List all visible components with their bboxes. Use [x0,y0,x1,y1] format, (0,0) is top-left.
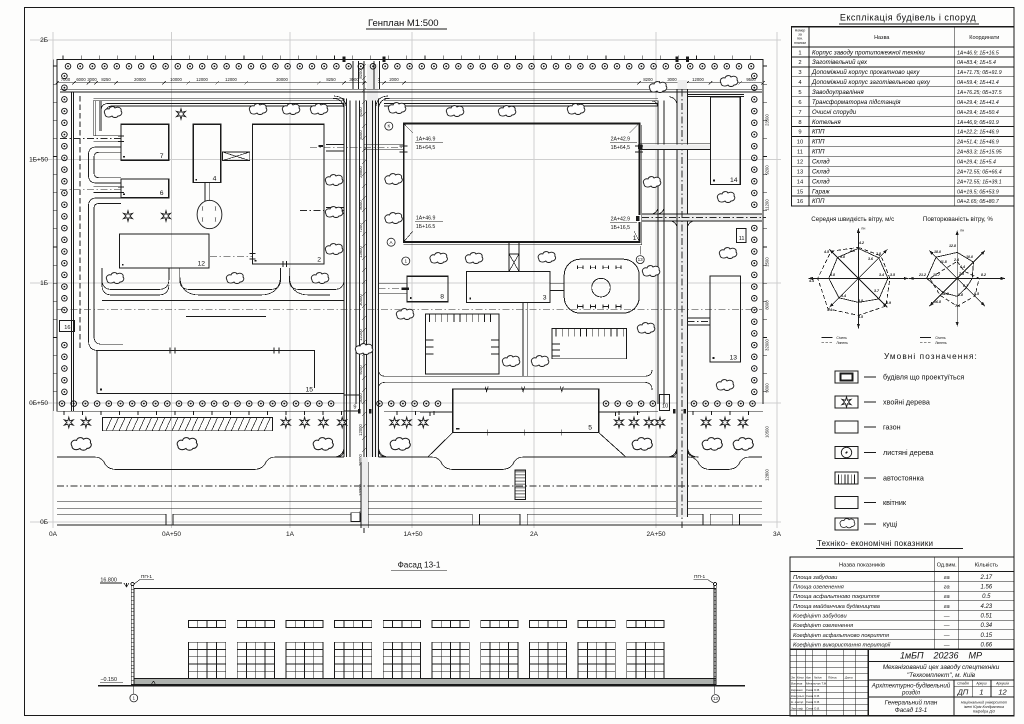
svg-text:20000: 20000 [134,77,146,82]
tep table [790,557,1014,649]
leader to axis marker 13 [639,246,641,255]
svg-text:га: га [944,585,950,591]
svg-text:12000: 12000 [225,77,237,82]
svg-text:Кільк: Кільк [797,675,804,679]
svg-text:3.8: 3.8 [830,273,835,277]
facade axis marker 1 [133,686,135,694]
street south curbs [57,501,762,514]
building 8 [407,276,448,302]
svg-text:9500: 9500 [746,77,756,82]
svg-text:25500: 25500 [358,166,363,178]
svg-text:Коефіцінт забудови: Коефіцінт забудови [793,614,848,620]
svg-text:2А+51.4; 1Б+46.9: 2А+51.4; 1Б+46.9 [956,140,999,146]
svg-text:КПП: КПП [812,150,825,156]
axis marker 13 [636,256,644,264]
svg-text:3: 3 [543,295,547,302]
svg-text:будівля що проектуїться: будівля що проектуїться [883,373,964,382]
svg-text:4.2: 4.2 [858,241,864,245]
svg-text:23500: 23500 [765,114,770,126]
building 2 [252,124,324,264]
svg-text:Аркуш: Аркуш [975,682,986,686]
svg-text:імені Юрія Кондратюка: імені Юрія Кондратюка [964,705,1004,709]
svg-text:30000: 30000 [358,294,363,306]
legend item листяні дерева [835,447,933,459]
svg-text:Назва показників: Назва показників [839,563,885,569]
svg-text:1А+46,9; 0Б+91.9: 1А+46,9; 0Б+91.9 [957,120,999,126]
road surface shading right vertical [678,80,688,517]
svg-text:1А: 1А [286,531,295,538]
svg-text:3000: 3000 [667,77,677,82]
axis marker A [387,238,395,246]
dimension line top [57,82,762,84]
svg-text:10000: 10000 [170,77,182,82]
svg-text:Допоміжний корпус прокатново ц: Допоміжний корпус прокатново цеху [811,69,920,76]
svg-text:пн: пн [960,228,964,232]
garage gate ticks [170,348,279,354]
road left band [72,92,74,411]
svg-text:2.4: 2.4 [953,258,959,262]
title block sheet name [953,697,955,716]
crosswalk [516,472,526,498]
axis marker 1 [402,257,410,265]
building 1 entrance ticks west [400,146,408,152]
road central boulevard [344,61,380,457]
svg-text:квітник: квітник [883,498,907,507]
svg-text:8000: 8000 [358,200,363,210]
svg-text:0.15: 0.15 [980,633,992,639]
svg-text:Дата: Дата [844,675,853,679]
wind rose frequency legend [920,336,947,345]
svg-text:3.9: 3.9 [886,301,891,305]
title block document number [868,661,1014,663]
svg-text:Коефіцінт асфальтново покриття: Коефіцінт асфальтново покриття [793,633,889,639]
svg-text:Кількість: Кількість [975,563,998,569]
svg-text:30000: 30000 [276,77,288,82]
svg-text:Корпус заводу протипожежної те: Корпус заводу протипожежної техніки [812,50,925,56]
svg-text:Склад: Склад [812,160,830,166]
svg-text:12: 12 [197,261,205,268]
svg-text:2А: 2А [530,531,539,538]
svg-text:3000: 3000 [87,77,97,82]
facade ground line [98,685,745,687]
svg-text:3000: 3000 [358,393,363,403]
facade windows [189,621,226,679]
explication table [792,27,1015,206]
svg-text:3: 3 [798,70,801,76]
svg-text:ДП: ДП [957,687,969,696]
svg-text:4.5: 4.5 [857,315,864,319]
street fillets into roads [333,446,699,457]
svg-text:12200: 12200 [358,329,363,341]
svg-text:Сема О.В.: Сема О.В. [806,694,820,698]
svg-text:Експлікація будівель і спор: Експлікація будівель і споруд [840,13,977,23]
title block object name [868,679,1014,681]
svg-text:12.8: 12.8 [949,244,956,248]
svg-text:−0.150: −0.150 [100,677,117,683]
bushes clouds middle [430,253,447,264]
svg-text:Національний університет: Національний університет [961,701,1007,705]
svg-text:Сема О.В.: Сема О.В. [806,688,820,692]
svg-text:пн: пн [861,226,865,230]
svg-text:Площа озеленення: Площа озеленення [793,585,844,591]
svg-text:2А+42.9: 2А+42.9 [611,217,631,223]
building 1 corner label top-left [404,124,413,134]
bushes clouds lawn row [71,438,91,451]
site boundary ticks [53,56,767,392]
svg-text:15: 15 [797,189,803,195]
road stub building 2 east [326,145,344,151]
svg-text:кущі: кущі [883,520,898,529]
svg-text:13: 13 [797,170,803,176]
svg-text:0Б+50: 0Б+50 [29,400,48,407]
svg-text:0А+29.4; 1Б+41.4: 0А+29.4; 1Б+41.4 [957,100,999,106]
svg-text:13: 13 [713,696,718,701]
svg-text:Заготівельний цех: Заготівельний цех [812,59,868,66]
svg-text:№док: №док [814,675,822,679]
svg-text:8: 8 [440,294,444,301]
svg-text:6000: 6000 [76,77,86,82]
svg-text:8200: 8200 [358,107,363,117]
svg-text:Коефіцінт озеленення: Коефіцінт озеленення [793,623,853,629]
svg-text:Фасад 13-1: Фасад 13-1 [398,561,441,570]
svg-text:13: 13 [729,355,737,362]
wind rose frequency [909,228,1005,326]
svg-text:Сема О.В.: Сема О.В. [806,700,820,704]
svg-text:8250: 8250 [326,77,336,82]
svg-text:КПП: КПП [812,199,825,205]
road right horizontal to boundary [642,214,762,221]
svg-text:га: га [944,594,950,600]
svg-text:0.5: 0.5 [982,594,991,600]
gallery building 1 to 3 with cross brace [509,242,519,271]
parking comb 2 [552,329,626,359]
svg-text:Склад: Склад [812,179,830,185]
svg-text:Генплан М1:500: Генплан М1:500 [368,18,439,29]
svg-text:4000: 4000 [358,130,363,140]
svg-text:0А+29.4; 1Б+5.4: 0А+29.4; 1Б+5.4 [957,160,996,166]
svg-text:—: — [943,623,950,629]
building 9 checkpoint [344,395,359,411]
road surface shading central [367,64,378,457]
coordinate grid [30,32,781,528]
road stub building 1 east [641,144,711,149]
svg-text:11.2: 11.2 [942,292,949,296]
svg-text:4.5: 4.5 [823,250,830,254]
svg-text:0Б: 0Б [40,519,48,526]
svg-text:0.34: 0.34 [980,623,992,629]
building 7 [121,124,169,160]
svg-text:12800: 12800 [765,469,770,481]
parking hatched west [103,418,273,431]
svg-text:3.8: 3.8 [840,255,845,259]
svg-text:1: 1 [798,50,801,56]
svg-text:15: 15 [305,387,313,394]
svg-text:Назва: Назва [874,35,890,41]
svg-text:1Б+64,5: 1Б+64,5 [416,145,436,151]
road right vertical [658,89,688,517]
road corner fillets [332,96,696,457]
building 6 transformer substation [121,179,169,198]
building 5 administration [453,389,599,433]
svg-text:Липень: Липень [836,341,848,345]
svg-text:0А+50: 0А+50 [162,531,181,538]
axis marker K [385,122,393,130]
svg-text:16: 16 [64,325,70,331]
axis labels left [29,37,48,526]
svg-text:3А: 3А [773,531,782,538]
legend item кущі [835,518,898,530]
svg-text:Склад: Склад [812,170,830,176]
svg-text:1А+50: 1А+50 [404,531,423,538]
tree column left [62,73,68,395]
svg-text:2: 2 [798,60,801,66]
svg-text:11: 11 [797,150,803,156]
building 16 checkpoint [60,321,75,332]
svg-text:9: 9 [353,405,356,411]
svg-text:1Б+16,5: 1Б+16,5 [611,225,631,231]
svg-text:Аркушів: Аркушів [995,682,1009,686]
svg-text:12000: 12000 [358,424,363,436]
svg-text:12: 12 [998,687,1007,696]
svg-text:4.4: 4.4 [826,308,832,312]
svg-text:16: 16 [797,199,803,205]
svg-text:9000: 9000 [765,383,770,393]
svg-text:7: 7 [798,110,801,116]
svg-text:1Б: 1Б [40,280,48,287]
svg-text:12000: 12000 [692,77,704,82]
svg-text:32000: 32000 [765,339,770,351]
svg-text:Умовні позначення:: Умовні позначення: [884,352,978,361]
building 1 entrance ticks east [635,146,643,152]
svg-text:Н. контр: Н. контр [791,700,804,704]
building 2 east gate dash [319,145,324,147]
svg-text:18.0: 18.0 [934,250,941,254]
svg-text:Кафедра ДіЗ: Кафедра ДіЗ [973,710,995,714]
building 14 [711,97,741,185]
svg-text:Стадія: Стадія [957,682,969,686]
svg-text:0А+83.4; 1Б+5.4: 0А+83.4; 1Б+5.4 [957,60,996,66]
facade axis marker 13 [713,686,715,694]
svg-text:Січень: Січень [836,336,847,340]
tree row top [65,64,754,70]
round structure with fountain [564,259,639,313]
svg-text:3.4: 3.4 [841,294,846,298]
svg-text:—: — [943,633,950,639]
svg-text:Підпис: Підпис [828,675,838,679]
title block left grid [867,649,869,716]
svg-text:10500: 10500 [765,426,770,438]
svg-text:Площа асфальтново покриття: Площа асфальтново покриття [793,594,880,600]
road left loop to building 7 [89,101,122,183]
svg-text:1: 1 [405,259,408,264]
facade pole right [714,586,716,685]
svg-text:Архітектурно-будівельний: Архітектурно-будівельний [871,683,951,690]
legend item будівля що проектуїться [835,371,964,383]
svg-text:Площа майданчика будівництва: Площа майданчика будівництва [793,603,880,610]
building 12 [120,234,209,268]
building 1 main workshop [404,124,640,243]
svg-text:0А: 0А [49,531,58,538]
svg-text:Заводоуправління: Заводоуправління [812,90,865,96]
parking comb 1 [425,314,499,374]
wind rose speed legend [821,336,848,345]
svg-text:8000: 8000 [765,300,770,310]
svg-text:Повторюваність вітру, %: Повторюваність вітру, % [923,216,993,223]
svg-text:2А+72.55; 1Б+39.1: 2А+72.55; 1Б+39.1 [956,179,1002,185]
svg-text:9200: 9200 [358,365,363,375]
svg-text:7.4: 7.4 [955,304,960,308]
svg-text:5: 5 [588,424,592,431]
building 1 east gate opening [638,215,642,222]
svg-text:0А+19.5; 0Б+53.9: 0А+19.5; 0Б+53.9 [957,189,999,195]
tree row middle [59,401,755,407]
svg-text:1Б+64,5: 1Б+64,5 [611,145,631,151]
svg-text:0.66: 0.66 [980,643,992,649]
svg-text:Координати: Координати [969,35,999,41]
svg-text:Очисні споруди: Очисні споруди [812,110,857,116]
svg-text:8: 8 [798,120,801,126]
svg-text:2А+83.3; 1Б+15.95: 2А+83.3; 1Б+15.95 [956,150,1002,156]
svg-text:Січень: Січень [935,336,946,340]
building 11 small [737,229,746,243]
svg-text:11.8: 11.8 [940,260,947,264]
svg-text:1А+76.25; 0Б+37.5: 1А+76.25; 0Б+37.5 [957,90,1002,96]
road stub building 3 east [550,283,564,290]
svg-text:10.0: 10.0 [966,255,973,259]
svg-text:3.4: 3.4 [879,273,884,277]
building 1 corner label bottom-right [634,231,640,242]
svg-text:2000: 2000 [389,77,399,82]
svg-text:газон: газон [883,423,901,432]
svg-text:14: 14 [730,177,738,184]
svg-text:КПП: КПП [812,130,825,136]
oval settling tanks [197,200,222,228]
gate posts at boundary [343,57,690,63]
svg-text:1А+46.9: 1А+46.9 [416,216,436,222]
svg-text:1мБП 20236 МР: 1мБП 20236 МР [900,651,982,661]
svg-text:"Техкомплект", м. Київ: "Техкомплект", м. Київ [907,672,976,679]
road stub building 13 west [688,318,711,325]
svg-text:4.23: 4.23 [980,604,992,610]
svg-text:8250: 8250 [101,77,111,82]
bushes clouds top row [104,107,121,118]
svg-text:Допоміжний корпус заготівельно: Допоміжний корпус заготівельново цеху [811,79,931,86]
svg-text:1А+46.9: 1А+46.9 [416,136,436,142]
svg-text:Механізований цех заводу спецт: Механізований цех заводу спецтехніки [883,663,1000,671]
street booth box [351,513,360,522]
stem building 4 to oval [205,183,210,201]
svg-text:1А+71.75; 0Б+91.9: 1А+71.75; 0Б+91.9 [957,70,1002,76]
road stub oval west [326,208,344,214]
svg-text:1Б+16.5: 1Б+16.5 [416,224,436,230]
svg-text:га: га [944,575,950,581]
svg-text:Мельничук Т.М.: Мельничук Т.М. [806,682,827,686]
road stub building 8 west [379,283,407,294]
svg-text:4: 4 [213,176,217,183]
road top band [60,89,762,112]
svg-text:КПП: КПП [812,140,825,146]
svg-text:I: I [215,206,217,212]
svg-text:4.1: 4.1 [849,249,855,253]
svg-text:Сема О.В.: Сема О.В. [806,706,820,710]
svg-text:Виконав: Виконав [791,682,803,686]
svg-text:7: 7 [160,153,164,160]
svg-text:8200: 8200 [643,77,653,82]
svg-text:хвойні дерева: хвойні дерева [883,398,930,407]
svg-text:планом: планом [794,41,806,45]
title block organization [961,701,1007,714]
svg-text:10: 10 [662,404,668,410]
road left loop to building 6 [89,187,124,351]
conifer stars lawn row [64,417,73,427]
svg-text:Зав. каф: Зав. каф [791,706,803,710]
svg-text:Керівник: Керівник [791,688,803,692]
road south of workshops [379,370,653,390]
svg-text:1А+46.9; 1Б+16.5: 1А+46.9; 1Б+16.5 [957,50,999,56]
building 1 corner label top-right [630,124,640,134]
svg-text:Котельня: Котельня [812,120,842,126]
svg-text:0А+59.4; 1Б+41.4: 0А+59.4; 1Б+41.4 [957,80,999,86]
legend item квітник [835,497,907,509]
svg-text:2А+42.9: 2А+42.9 [611,136,631,142]
garage building 15 outline [98,351,315,388]
legend item автостоянка [835,472,924,484]
street north edge with bays [57,457,762,470]
legend item газон [835,421,901,433]
svg-text:0А+2.65; 0Б+80.7: 0А+2.65; 0Б+80.7 [957,199,1000,205]
site boundary [57,59,763,411]
building 13 [710,276,741,362]
svg-text:1: 1 [979,687,983,696]
svg-text:2А+72.55; 0Б+66.4: 2А+72.55; 0Б+66.4 [956,170,1002,176]
road below buildings 12 and 2 [102,268,344,301]
svg-text:Липень: Липень [935,341,947,345]
svg-text:9: 9 [798,130,801,136]
svg-text:Площа забудови: Площа забудови [793,575,838,581]
svg-text:10: 10 [797,140,803,146]
title block frame [790,649,1014,716]
building 4 [193,124,220,182]
svg-text:5: 5 [798,90,801,96]
fence gate marks at right road [673,409,676,414]
svg-text:1Б+50: 1Б+50 [29,157,48,164]
building 5 gate marks [485,387,564,436]
svg-text:К: К [387,124,390,129]
svg-text:0.51: 0.51 [980,614,992,620]
svg-text:3.8: 3.8 [858,299,863,303]
svg-text:6: 6 [160,190,164,197]
svg-text:2: 2 [317,257,321,264]
road central crossing street [361,462,368,528]
svg-text:1.56: 1.56 [980,585,992,591]
svg-text:Зм: Зм [791,675,795,679]
gallery building 4 to 2 with cross brace [223,152,250,161]
road centerlines dash-dot [57,89,766,528]
svg-text:2Б: 2Б [40,37,48,44]
fence gate marks at central road [358,409,361,414]
svg-text:6.1: 6.1 [963,284,968,288]
svg-text:2.17: 2.17 [979,575,992,581]
dimension column right boundary [765,114,770,481]
wind rose speed [808,226,908,328]
svg-text:2.8: 2.8 [875,252,881,256]
svg-text:га: га [944,604,950,610]
road stub building 1 west [364,145,403,150]
svg-text:11: 11 [739,236,745,242]
building 3 south stems [523,303,527,377]
conifer stars upper [177,109,186,119]
facade plinth band [134,679,716,685]
